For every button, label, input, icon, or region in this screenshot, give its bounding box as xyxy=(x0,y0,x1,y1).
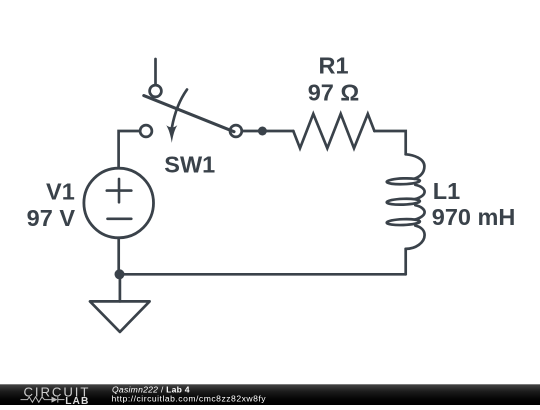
wire from bottom of inductor down xyxy=(404,249,407,274)
switch SW1 throw terminal circle xyxy=(150,85,162,97)
svg-text:97 V: 97 V xyxy=(27,205,76,231)
footer bar xyxy=(0,384,540,405)
svg-text:97 Ω: 97 Ω xyxy=(308,79,360,105)
svg-text:V1: V1 xyxy=(46,179,75,205)
node junction dot between switch and R1 xyxy=(258,127,267,136)
switch SW1 left pole terminal circle xyxy=(140,125,152,137)
svg-text:LAB: LAB xyxy=(65,396,89,405)
wire from switch right terminal to resistor xyxy=(242,130,293,133)
wire from R1 to top of inductor xyxy=(374,131,405,154)
wire top stub to switch throw terminal xyxy=(154,59,157,85)
ground symbol triangle xyxy=(90,301,150,332)
inductor L1 coil xyxy=(387,154,425,249)
V1 minus sign xyxy=(108,218,132,221)
svg-text:R1: R1 xyxy=(318,53,348,79)
bottom wire from V1 node to inductor xyxy=(120,273,406,276)
switch SW1 blade xyxy=(144,96,234,132)
switch SW1 right pole terminal circle xyxy=(230,125,242,137)
voltage source V1 circle xyxy=(84,168,154,238)
resistor R1 zigzag xyxy=(293,114,374,148)
wire from V1 top to switch left terminal xyxy=(119,131,141,168)
switch SW1 actuation arrow arc xyxy=(172,90,187,128)
CircuitLab logo resistor zigzag and diode xyxy=(21,397,65,403)
V1 plus sign xyxy=(107,179,132,202)
svg-text:970 mH: 970 mH xyxy=(432,204,516,230)
switch SW1 arrowhead xyxy=(166,125,177,143)
wire from V1 bottom to ground node xyxy=(117,238,120,275)
svg-text:http://circuitlab.com/cmc8zz82: http://circuitlab.com/cmc8zz82xw8fy xyxy=(112,394,267,404)
svg-text:L1: L1 xyxy=(433,178,460,204)
node junction dot at V1 bottom xyxy=(115,269,125,279)
svg-text:SW1: SW1 xyxy=(164,152,215,178)
wire ground stub xyxy=(119,274,122,301)
